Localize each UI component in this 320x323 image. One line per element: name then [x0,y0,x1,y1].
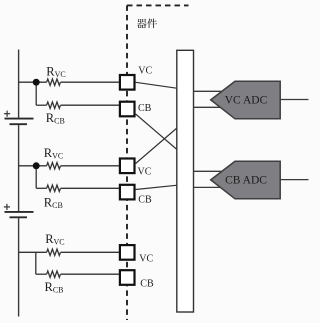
cell1 VC wire right [61,81,120,83]
svg-text:RVC: RVC [45,232,64,247]
cell3 CB wire right [61,273,120,275]
CB ADC block [211,161,281,199]
cell2 CB to mux wire [136,185,178,189]
cell1 resistor RCB zigzag [47,102,61,108]
cell1 CB to mux crossing wire [136,114,178,150]
device boundary dashed horizontal line [127,4,189,6]
VC ADC input wire 1 [194,91,309,187]
svg-text:VC: VC [138,65,152,76]
cell2 VC pin square [120,159,135,174]
svg-text:RVC: RVC [44,146,63,161]
cell2 tap drop wire [35,166,37,189]
cell2 VC to mux crossing wire [136,128,178,164]
cell3 resistor RCB zigzag [47,271,61,277]
svg-text:VC ADC: VC ADC [225,95,268,107]
svg-text:CB: CB [138,103,152,114]
cell1 VC pin square [120,75,135,90]
battery B2 short plate [10,216,28,218]
svg-text:VC: VC [138,166,152,177]
cell1 VC to mux wire [136,82,178,88]
left battery stack bus wire (top segment) [18,50,20,317]
CB ADC output wire [280,179,308,181]
svg-text:CB: CB [140,279,154,290]
svg-text:RCB: RCB [44,196,63,211]
battery B1 short plate [10,123,28,125]
cell3 VC wire left [19,249,120,277]
battery B2 plus sign [4,204,10,210]
device boundary dashed vertical line [127,5,189,320]
cell2 VC wire right [61,165,120,167]
mux block rectangle U1 [177,50,194,312]
bus wire (middle segment) [18,125,20,211]
CB ADC input wire 1 [194,170,225,172]
bus wire (bottom segment) [18,218,20,316]
cell2 resistor RVC zigzag [47,163,61,169]
VC ADC input wire 2 [194,106,225,108]
cell3 resistor RVC zigzag [47,249,61,255]
cell2 CB wire right [61,187,120,189]
svg-text:CB: CB [138,195,152,206]
cell1 resistor RVC zigzag [47,79,61,85]
cell1 CB wire left [36,104,46,106]
VC ADC output wire [280,99,308,101]
cell2 CB pin square [120,185,135,200]
battery B2 long plate [5,211,34,213]
cell2 CB wire left [36,187,46,189]
label 器件 (device) glyph 器 [137,19,147,28]
battery B1 long plate [5,118,34,120]
svg-text:RCB: RCB [45,280,64,295]
cell1 node dot [33,79,40,86]
svg-text:VC: VC [139,253,153,264]
cell3 VC wire right [61,251,120,253]
label 器件 (device) glyph 件 [147,19,157,29]
svg-text:RCB: RCB [46,111,65,126]
cell1 tap drop wire [35,82,37,105]
cell1 VC wire left [19,79,120,108]
svg-text:RVC: RVC [46,65,65,80]
cell3 CB wire left [36,273,47,275]
battery B1 plus sign [4,111,10,117]
cell1 CB wire right [61,104,120,106]
cell1 CB pin square [120,102,135,117]
cell2 node dot [33,162,40,169]
cell2 resistor RCB zigzag [47,185,61,191]
cell2 VC wire left [19,163,120,192]
cell3 CB pin square [120,270,135,285]
svg-text:CB ADC: CB ADC [225,175,267,187]
cell3 tap drop wire [35,252,37,274]
VC ADC block [211,81,281,119]
CB ADC input wire 2 [194,186,225,188]
cell3 VC pin square [120,245,135,260]
